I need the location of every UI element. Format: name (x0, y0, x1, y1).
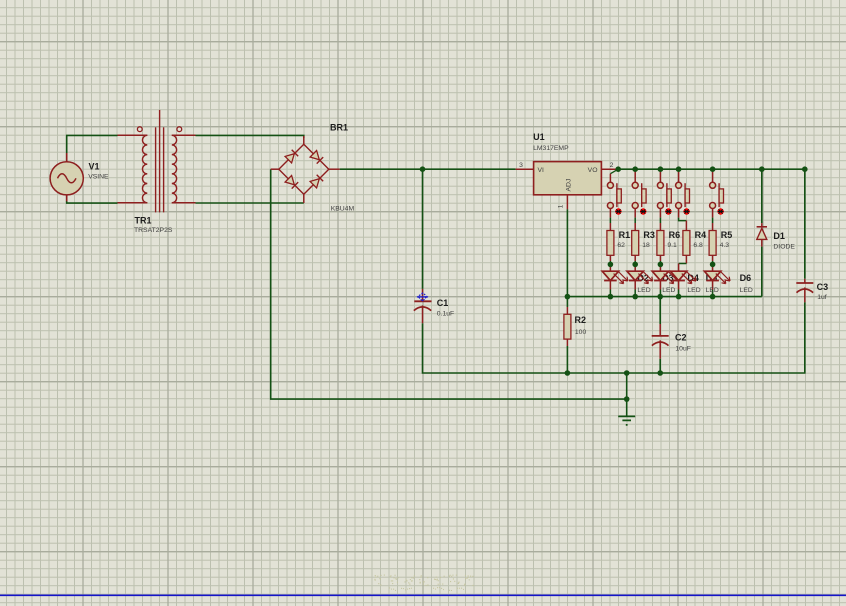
wire: C2 top lead from LED rail (659, 297, 661, 324)
svg-text:VO: VO (588, 167, 598, 174)
svg-text:3: 3 (519, 162, 523, 169)
wire: VO output top rail (618, 169, 805, 279)
capacitor C3 (804, 279, 806, 283)
node: input rail / C1 tap (420, 166, 426, 172)
wire: R2 bottom lead to mid rail (566, 346, 568, 373)
node: branch4 tap (676, 166, 682, 172)
wire: branch 4 tap from VO rail (678, 169, 680, 182)
wire: BR1 right corner to U1 VI pin (340, 168, 516, 170)
svg-text:LED: LED (740, 287, 753, 294)
svg-text:LED: LED (637, 287, 650, 294)
sheet border line (0, 594, 846, 596)
svg-text:R1: R1 (619, 230, 631, 240)
wire: branch 1 tap from VO rail (610, 169, 618, 174)
wire: resistor R6 to LED D4 (659, 255, 661, 261)
wire: C1 branch down from input rail (422, 169, 424, 289)
svg-text:1: 1 (558, 204, 565, 208)
wire: TR1 secondary top to BR1 top corner (196, 135, 304, 138)
node: C3 corner (802, 166, 808, 172)
wire: LED D2 cathode to rail (609, 281, 611, 290)
svg-text:U1: U1 (533, 132, 545, 142)
svg-text:D1: D1 (773, 231, 785, 241)
node: D1 tap (759, 166, 765, 172)
node: LED1 cathode (608, 294, 614, 300)
node: junction below R6 (658, 262, 664, 268)
wire: branch 3 tap from VO rail (659, 169, 661, 182)
bridge rectifier BR1 (271, 136, 340, 203)
svg-text:VSINE: VSINE (88, 174, 109, 181)
svg-text:BR1: BR1 (330, 123, 348, 133)
svg-text:R4: R4 (695, 230, 707, 240)
U1 pin 1 ADJ (566, 195, 568, 209)
resistor R1 (607, 231, 614, 256)
node: LED2 cathode (632, 294, 638, 300)
switch SW3 (push button) (657, 182, 671, 214)
node: junction below R3 (632, 262, 638, 268)
transformer TR1 (118, 110, 196, 212)
switch SW2 (push button) (632, 182, 646, 214)
svg-text:V1: V1 (89, 161, 100, 171)
switch SW1 red button cap (615, 208, 621, 214)
svg-text:R3: R3 (643, 230, 655, 240)
svg-text:2: 2 (610, 162, 614, 169)
capacitor C1 (422, 289, 424, 301)
wire: V1 top to TR1 primary top (67, 135, 118, 153)
svg-text:4.3: 4.3 (720, 242, 730, 249)
LED D5 (670, 271, 696, 284)
wire: resistor R3 to LED D3 (634, 255, 636, 261)
wire: BR1 left corner down to ground rail (bottom loop) (271, 169, 627, 399)
wire: R2 top lead green (566, 297, 568, 307)
wire: switch 4 to resistor R4 (678, 208, 680, 217)
node: ground tap on mid rail (624, 370, 630, 376)
wire: LED D4 cathode to rail (659, 281, 661, 290)
svg-text:D6: D6 (740, 273, 752, 283)
svg-text:1uf: 1uf (817, 294, 827, 301)
node: ground rail end (624, 396, 630, 402)
wire: resistor R5 to LED D6 (712, 255, 714, 261)
svg-text:R2: R2 (575, 315, 587, 325)
switch SW4 (push button) (676, 182, 690, 214)
node: branch2 tap (632, 166, 638, 172)
svg-text:9.1: 9.1 (667, 242, 677, 249)
wire: LED cathode rail (567, 296, 761, 298)
svg-text:DIODE: DIODE (773, 244, 795, 251)
op-amp regulator U1 LM317EMP body (534, 162, 602, 195)
svg-text:0.1uF: 0.1uF (437, 310, 454, 317)
switch SW4 red button cap (683, 208, 689, 214)
LED D2 (602, 271, 628, 284)
node: LED3/C2 junction (657, 294, 663, 300)
node: ADJ/R2/LED-rail junction (565, 294, 571, 300)
LED D6 (704, 271, 730, 284)
wire: branch 5 tap from VO rail (712, 169, 714, 182)
svg-text:R6: R6 (669, 230, 681, 240)
wire: LED D3 cathode to rail (634, 281, 636, 290)
wire: U1 ADJ pin down to LED rail (566, 209, 568, 296)
svg-text:62: 62 (617, 242, 625, 249)
node: junction below R1 (608, 262, 614, 268)
capacitor C2 (659, 324, 661, 336)
switch SW1 (push button) (607, 182, 621, 214)
svg-text:C2: C2 (675, 332, 687, 342)
wire: switch 1 to resistor R1 (609, 208, 611, 217)
wire: C1 bottom to mid rail across to C3 bottom (423, 302, 805, 373)
svg-text:6.8: 6.8 (693, 242, 703, 249)
svg-text:ADJ: ADJ (566, 179, 573, 192)
node: C2 bottom on mid rail (657, 370, 663, 376)
svg-text:VI: VI (538, 167, 545, 174)
switch SW2 red button cap (640, 208, 646, 214)
resistor R6 (657, 231, 664, 256)
wire: D1 branch from output rail (761, 169, 763, 223)
wire: switch 2 to resistor R3 (634, 208, 636, 217)
wire: TR1 secondary bottom to BR1 bottom stub (196, 202, 304, 204)
switch SW3 red button cap (665, 208, 671, 214)
svg-text:TR1: TR1 (135, 215, 152, 225)
wire: resistor R1 to LED D2 (609, 255, 611, 261)
wire: LED D6 cathode to rail (712, 281, 714, 290)
resistor R5 (709, 231, 716, 256)
wire: D1 cathode down to LED cathode rail (761, 247, 763, 297)
svg-text:TRSAT2P2S: TRSAT2P2S (134, 227, 173, 234)
resistor R2 (566, 307, 568, 314)
svg-text:C1: C1 (437, 298, 449, 308)
diode D1 (761, 223, 763, 227)
svg-text:C3: C3 (817, 282, 829, 292)
voltage source V1 (66, 153, 68, 162)
svg-text:18: 18 (642, 242, 650, 249)
node: LED4 cathode (676, 294, 682, 300)
LED D3 (627, 271, 653, 284)
svg-text:LED: LED (687, 287, 700, 294)
svg-text:LED: LED (706, 287, 719, 294)
wire: switch 5 to resistor R5 (712, 208, 714, 217)
wire: branch 2 tap from VO rail (634, 169, 636, 182)
wire: LED D5 cathode to rail (678, 281, 680, 290)
LED D4 (652, 271, 678, 284)
wire: resistor R4 to LED D5 (685, 255, 687, 263)
node: VO pin junction (615, 166, 621, 172)
watermark (faint dot-matrix) (374, 575, 473, 592)
svg-text:LED: LED (662, 287, 675, 294)
node: LED5 cathode (710, 294, 716, 300)
C1 polarity origin marker (blue) (417, 293, 429, 302)
node: branch5 tap (710, 166, 716, 172)
U1 pin 2 VO (601, 168, 618, 170)
wire: mid rail junction down to ground (626, 373, 628, 416)
svg-text:KBU4M: KBU4M (331, 205, 355, 212)
wire: V1 bottom to TR1 primary bottom (67, 201, 118, 203)
resistor R3 (632, 231, 639, 256)
node: R2 bottom on mid rail (565, 370, 571, 376)
node: branch3 tap (658, 166, 664, 172)
switch SW5 red button cap (717, 208, 723, 214)
ground symbol (618, 416, 635, 425)
U1 pin 3 VI (516, 168, 534, 170)
wire: switch 3 to resistor R6 (659, 208, 661, 217)
svg-text:LM317EMP: LM317EMP (533, 145, 569, 152)
switch SW5 (push button) (710, 182, 724, 214)
node: junction below R5 (710, 262, 716, 268)
svg-text:100: 100 (575, 329, 587, 336)
resistor R4 (683, 231, 690, 256)
wire: C2 bottom lead to mid rail (659, 359, 661, 373)
svg-text:R5: R5 (721, 230, 733, 240)
svg-text:10uF: 10uF (675, 346, 691, 353)
